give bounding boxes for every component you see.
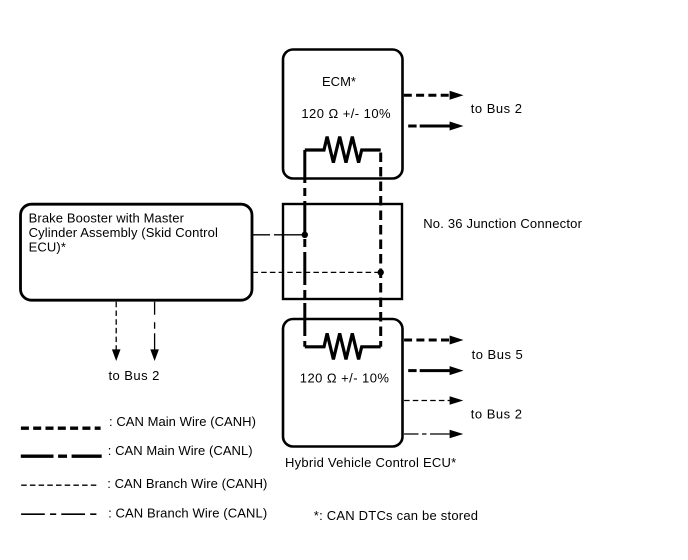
svg-text:120 Ω +/- 10%: 120 Ω +/- 10% (300, 370, 390, 385)
svg-text:to Bus 5: to Bus 5 (472, 347, 524, 362)
svg-text:: CAN Branch Wire (CANL): : CAN Branch Wire (CANL) (108, 506, 267, 521)
svg-text:120 Ω +/- 10%: 120 Ω +/- 10% (301, 106, 391, 121)
svg-text:: CAN Branch Wire (CANH): : CAN Branch Wire (CANH) (107, 476, 267, 491)
svg-text:Brake Booster with Master: Brake Booster with Master (29, 211, 185, 226)
svg-text:to Bus 2: to Bus 2 (109, 368, 160, 383)
svg-text:No. 36 Junction Connector: No. 36 Junction Connector (423, 216, 582, 231)
svg-text:: CAN Main Wire (CANL): : CAN Main Wire (CANL) (108, 443, 253, 458)
svg-text:ECM*: ECM* (322, 74, 356, 89)
svg-text:*: CAN DTCs can be stored: *: CAN DTCs can be stored (314, 508, 478, 523)
svg-text:Hybrid Vehicle Control ECU*: Hybrid Vehicle Control ECU* (285, 455, 456, 470)
svg-text:: CAN Main Wire (CANH): : CAN Main Wire (CANH) (109, 414, 256, 429)
svg-text:Cylinder Assembly (Skid Contro: Cylinder Assembly (Skid Control (29, 225, 218, 240)
svg-text:to Bus 2: to Bus 2 (471, 406, 523, 421)
svg-text:to Bus 2: to Bus 2 (471, 101, 523, 116)
svg-text:ECU)*: ECU)* (29, 240, 66, 255)
